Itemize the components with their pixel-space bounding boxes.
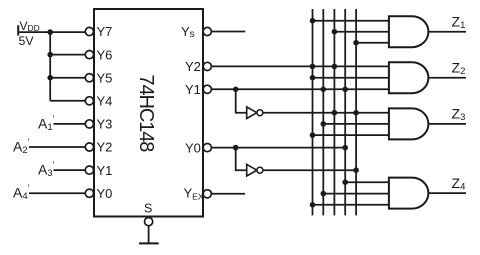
wire row Y0 to bus4 [212, 147, 346, 149]
wire gate G4 middle input from bus2 [323, 193, 389, 195]
and gate G1 [389, 16, 428, 47]
pin Y5 bubble [85, 74, 93, 82]
svg-text:A2': A2' [13, 137, 30, 156]
svg-text:Y3: Y3 [97, 117, 113, 132]
svg-text:VDD: VDD [20, 19, 40, 33]
and gate G4 [389, 178, 428, 209]
junction G1 top bus1 [310, 18, 316, 24]
wire VDD vertical drop [49, 32, 51, 101]
junction G1 bottom bus5 [353, 40, 359, 46]
junction Y0 inverter tap [233, 145, 239, 151]
wire gate G3 bottom input from bus1 [313, 134, 389, 136]
wire to pin Y6 [50, 54, 85, 56]
inverter U2 triangle [247, 107, 257, 119]
wire YEX stub [212, 193, 246, 195]
svg-text:Y0: Y0 [97, 186, 113, 201]
pin Y7 bubble [85, 27, 93, 35]
wire gate G1 top input from bus1 [313, 20, 389, 22]
wire output Z4 [428, 192, 466, 194]
svg-text:Y2: Y2 [97, 140, 113, 155]
pin Y0out bubble [203, 144, 211, 152]
junction G4 top bus4 [342, 179, 348, 185]
wire Ys stub [212, 31, 246, 33]
wire output Z3 [428, 123, 466, 125]
svg-text:Y1: Y1 [97, 163, 113, 178]
junction Y6 row [47, 52, 53, 58]
junction Y1 bus2 [321, 87, 327, 93]
wire input A4 to pin Y0 [29, 192, 85, 194]
pin Y2out bubble [203, 62, 211, 70]
bus line 4 [344, 9, 346, 215]
pin Y3 bubble [85, 120, 93, 128]
inverter U2 bubble [257, 110, 263, 116]
pin Y6 bubble [85, 51, 93, 59]
svg-text:Z2: Z2 [452, 60, 466, 78]
wire gate G1 bottom input from bus5 [356, 42, 389, 44]
pin YEX bubble [203, 190, 211, 198]
wire inverter1 output row to gate G3 top [263, 112, 389, 114]
junction Y5 row [47, 75, 53, 81]
svg-text:74HC148: 74HC148 [135, 75, 157, 153]
junction G3 bottom bus1 [310, 132, 316, 138]
svg-text:5V: 5V [19, 34, 35, 48]
junction Y1 bus4 [342, 87, 348, 93]
pin Y4 bubble [85, 97, 93, 105]
wire row Y1 to gate G2 bottom [212, 88, 389, 90]
wire S to ground [148, 226, 150, 244]
junction G3 mid bus2 [321, 121, 327, 127]
pin Y1out bubble [203, 85, 211, 93]
wire to pin Y4 [50, 100, 85, 102]
junction Y2 bus3 [332, 64, 338, 70]
ground [139, 242, 159, 244]
power VDD terminal [17, 25, 19, 35]
junction inv1 bus5 [353, 110, 359, 116]
wire VDD rail to pin Y7 [18, 31, 85, 33]
svg-text:Y2: Y2 [185, 59, 201, 74]
wire inverter2 tap vertical [236, 148, 247, 171]
junction G4 mid bus2 [321, 191, 327, 197]
wire gate G1 middle input from bus3 [334, 31, 389, 33]
bus line 3 [333, 9, 335, 215]
wire gate G4 bottom input from bus1 [313, 204, 389, 206]
svg-text:A1': A1' [38, 114, 55, 133]
pin Y2 bubble [85, 143, 93, 151]
svg-text:Y0: Y0 [185, 140, 201, 155]
wire gate G3 middle input from bus2 [323, 123, 389, 125]
svg-text:Y1: Y1 [185, 82, 201, 97]
inverter U3 bubble [257, 167, 263, 173]
bus line 2 [322, 9, 324, 215]
wire input A2 to pin Y2 [29, 146, 85, 148]
wire row Y2 to gate G2 top [212, 65, 389, 67]
junction Y2 bus1 [310, 64, 316, 70]
IC U1 74HC148 body [94, 9, 203, 217]
pin Y1 bubble [85, 166, 93, 174]
wire input A3 to pin Y1 [54, 169, 86, 171]
and gate G3 [389, 108, 428, 139]
junction G4 bottom bus1 [310, 202, 316, 208]
svg-text:Y5: Y5 [97, 70, 113, 85]
inverter U3 triangle [247, 164, 257, 176]
bus line 1 [312, 9, 314, 215]
wire inverter2 output row to bus5 [263, 169, 356, 171]
and gate G2 [389, 62, 428, 93]
svg-text:Y6: Y6 [97, 47, 113, 62]
junction Y1 inverter tap [233, 87, 239, 93]
junction G1 mid bus3 [332, 29, 338, 35]
wire gate G2 middle input from bus1 [313, 77, 389, 79]
svg-text:Z3: Z3 [452, 106, 466, 124]
junction inv2 bus5 [353, 167, 359, 173]
wire to pin Y5 [50, 77, 85, 79]
junction Y0 bus4 [342, 145, 348, 151]
pin Y0 bubble [85, 189, 93, 197]
svg-text:Z1: Z1 [452, 14, 466, 32]
svg-text:S: S [144, 202, 152, 216]
svg-text:Y7: Y7 [97, 24, 113, 39]
wire inverter1 tap vertical [236, 89, 247, 112]
pin S bubble [145, 218, 153, 226]
wire gate G4 top input from bus4 [345, 181, 389, 183]
junction G2 mid bus1 [310, 75, 316, 81]
svg-text:A3': A3' [38, 160, 55, 179]
svg-text:Y4: Y4 [97, 94, 113, 109]
wire input A1 to pin Y3 [54, 123, 86, 125]
bus line 5 [355, 9, 357, 215]
wire output Z1 [428, 31, 466, 33]
wire output Z2 [428, 77, 466, 79]
junction VDD rail [47, 29, 53, 35]
svg-text:A4': A4' [13, 183, 30, 202]
pin Ys bubble [203, 27, 211, 35]
svg-text:Z4: Z4 [452, 175, 466, 193]
junction inv1 bus3 [332, 110, 338, 116]
